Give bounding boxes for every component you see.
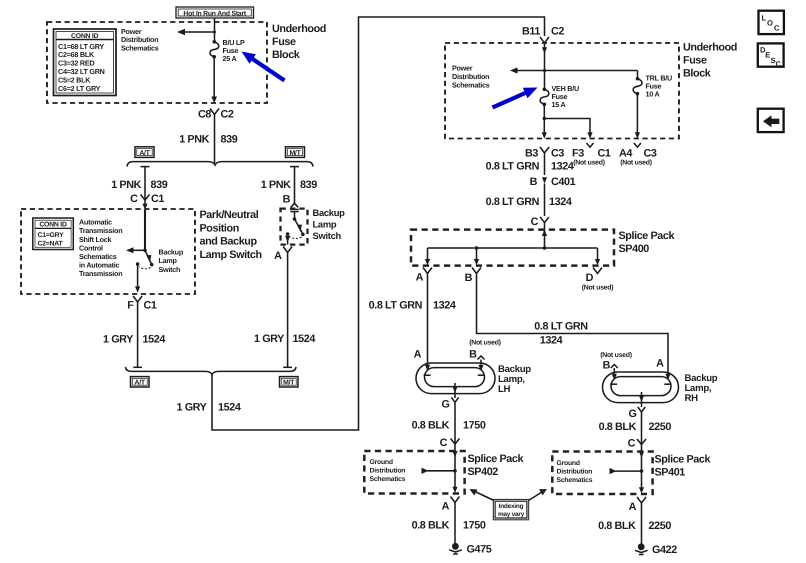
wire hot feed to fuse [214, 18, 216, 42]
svg-text:(Not used): (Not used) [573, 160, 605, 167]
splice pack SP400 (dashed) [411, 230, 614, 266]
svg-text:839: 839 [221, 134, 238, 146]
svg-text:G475: G475 [467, 544, 492, 556]
label Backup Lamp RH [685, 373, 718, 404]
svg-text:C2: C2 [221, 109, 234, 121]
svg-text:Splice Pack: Splice Pack [655, 454, 712, 466]
CONN ID table 2 [33, 218, 74, 250]
svg-text:Fuse: Fuse [272, 36, 296, 48]
svg-text:C6=2 LT GRY: C6=2 LT GRY [58, 84, 101, 93]
backup lamp RH (E2) [603, 372, 679, 407]
svg-text:1750: 1750 [463, 420, 486, 432]
svg-text:0.8 LT GRN: 0.8 LT GRN [486, 196, 540, 208]
wire B3 to C401 [544, 156, 546, 175]
note Ground Distribution Schematics (SP401) [557, 460, 593, 484]
svg-text:M/T: M/T [283, 380, 295, 387]
wire indexing arrow to SP401 [529, 489, 548, 501]
backup lamp LH (E1) [416, 363, 495, 398]
svg-text:1324: 1324 [551, 161, 574, 173]
svg-text:B: B [469, 349, 477, 361]
label Splice Pack SP401 [655, 454, 712, 479]
svg-text:CONN ID: CONN ID [71, 33, 99, 40]
wire to power distribution (left arrow) [177, 29, 215, 35]
svg-text:L: L [762, 14, 767, 23]
svg-text:2250: 2250 [649, 520, 672, 532]
svg-text:1 PNK: 1 PNK [179, 134, 209, 146]
node Hot In Run And Start [176, 7, 254, 18]
svg-text:Underhood: Underhood [272, 23, 326, 35]
svg-text:B: B [465, 272, 473, 284]
svg-text:0.8 BLK: 0.8 BLK [598, 520, 636, 532]
wire SP400 exit B [474, 248, 479, 265]
svg-text:(Not used): (Not used) [620, 160, 652, 167]
wire SP401 internal tap to ground distribution [610, 468, 644, 474]
label Backup Lamp Switch (M/T) [313, 207, 346, 241]
wire C2 to split [214, 118, 216, 164]
switch backup lamp (A/T) [135, 210, 154, 293]
svg-text:C2: C2 [551, 26, 564, 38]
wire arrow to shift lock note [126, 247, 145, 253]
svg-text:(Not used): (Not used) [600, 352, 632, 359]
wire F to bottom brace [133, 305, 142, 367]
node A connector (SP400) [416, 268, 432, 284]
svg-text:C8: C8 [198, 109, 211, 121]
svg-text:C1: C1 [144, 300, 157, 312]
svg-text:SP400: SP400 [619, 243, 650, 255]
svg-text:B3: B3 [525, 148, 538, 160]
svg-text:Distribution: Distribution [557, 469, 593, 476]
svg-text:O: O [767, 19, 773, 28]
svg-text:Distribution: Distribution [370, 468, 406, 475]
svg-text:Park/Neutral: Park/Neutral [200, 209, 259, 221]
node B connector (SP400) [465, 268, 481, 285]
label Splice Pack SP400 [619, 230, 676, 255]
svg-text:1524: 1524 [293, 333, 316, 345]
fuse VEH B/U 15A [540, 88, 549, 107]
svg-text:1324: 1324 [540, 335, 563, 347]
value label B/U LP Fuse 25 A [223, 38, 246, 63]
button DESC [758, 43, 784, 68]
wire feed to power distribution and TRL fuse [510, 67, 638, 73]
node junction feed [543, 69, 546, 72]
wire A to bottom brace [283, 255, 292, 367]
svg-text:may vary: may vary [498, 511, 525, 518]
svg-text:C1: C1 [151, 193, 164, 205]
wire SP401 exit [639, 471, 644, 493]
backup lamp switch box M/T (dashed) [281, 209, 308, 245]
svg-text:G422: G422 [652, 544, 677, 556]
node bottom option brace [126, 367, 297, 375]
svg-text:F: F [127, 300, 134, 312]
svg-text:1524: 1524 [218, 402, 241, 414]
svg-text:(Not used): (Not used) [582, 285, 614, 292]
underhood fuse block 1 (dashed) [47, 22, 267, 103]
svg-text:0.8 BLK: 0.8 BLK [599, 421, 637, 433]
svg-text:1750: 1750 [463, 520, 486, 532]
node G connector (LH) [442, 397, 459, 410]
svg-text:Backup: Backup [313, 207, 346, 218]
node A connector (SP401) [629, 497, 646, 513]
value label VEH B/U Fuse 15 A [552, 84, 579, 109]
svg-text:A: A [414, 349, 422, 361]
node C connector into SP400 [531, 216, 549, 248]
svg-text:Schematics: Schematics [557, 477, 593, 484]
svg-text:Lamp Switch: Lamp Switch [200, 249, 262, 261]
svg-text:0.8 BLK: 0.8 BLK [412, 420, 450, 432]
svg-text:C: C [774, 24, 780, 33]
note Power Distribution Schematics 2 [452, 64, 490, 90]
wire RH lamp ground to SP401 [639, 416, 644, 472]
svg-text:Block: Block [683, 68, 712, 80]
svg-text:1 GRY: 1 GRY [254, 333, 285, 345]
blue callout arrow to VEH B/U fuse [492, 88, 538, 110]
wire branch to F3 [544, 119, 592, 139]
svg-text:Switch: Switch [159, 265, 181, 274]
svg-text:SP401: SP401 [655, 467, 686, 479]
note Ground Distribution Schematics (SP402) [370, 459, 406, 483]
svg-text:1324: 1324 [549, 196, 572, 208]
svg-text:A: A [629, 501, 637, 513]
blue callout arrow to B/U LP fuse [242, 52, 286, 83]
svg-text:A: A [274, 250, 282, 262]
label M/T [286, 147, 305, 158]
svg-text:B: B [530, 176, 538, 188]
wire SP400 B to RH lamp [477, 277, 669, 376]
wire M/T branch drop [290, 167, 299, 204]
wire fuse to C8 [213, 57, 215, 98]
svg-text:Schematics: Schematics [370, 476, 406, 483]
svg-text:F3: F3 [572, 148, 584, 160]
svg-text:SP402: SP402 [468, 466, 499, 478]
label Underhood Fuse Block 2 [683, 42, 737, 80]
node F C1 connector [127, 296, 157, 312]
label A/T (bottom) [131, 377, 150, 387]
svg-text:A: A [656, 358, 664, 370]
node D connector (SP400, not used) [582, 268, 614, 292]
svg-text:LH: LH [498, 384, 511, 395]
svg-text:0.8 LT GRN: 0.8 LT GRN [369, 300, 423, 312]
svg-text:0.8 BLK: 0.8 BLK [412, 520, 450, 532]
fuse B/U LP 25A [210, 40, 219, 59]
wire SP402 exit [452, 471, 457, 493]
svg-text:15 A: 15 A [552, 100, 566, 109]
node B3 C3 connector [525, 147, 564, 160]
wire SP401 to G422 [641, 506, 643, 544]
splice pack SP401 (dashed) [552, 452, 652, 495]
park/neutral switch box (dashed) [21, 209, 195, 294]
splice pack SP402 (dashed) [364, 451, 464, 494]
wire B11 into block [542, 46, 547, 89]
label A/T [135, 147, 154, 158]
node A connector (SP402) [442, 497, 460, 513]
svg-text:D: D [586, 272, 594, 284]
svg-text:C: C [130, 193, 138, 205]
svg-text:Schematics: Schematics [452, 81, 490, 90]
wire SP400 A to LH lamp [427, 277, 429, 367]
svg-text:C: C [628, 438, 636, 450]
button back arrow [758, 109, 784, 132]
label Backup Lamp Switch (A/T) [159, 248, 184, 274]
note Automatic Transmission Shift Lock Control Schematics [79, 218, 122, 279]
svg-text:B: B [603, 360, 611, 372]
ground G422 [635, 543, 677, 556]
svg-text:(Not used): (Not used) [469, 340, 501, 347]
node top option brace A/T | M/T [127, 162, 313, 167]
label Underhood Fuse Block [272, 23, 326, 61]
svg-text:1524: 1524 [143, 334, 166, 346]
node B C401 connector [530, 176, 576, 216]
value label TRL B/U Fuse 10 A [646, 74, 673, 99]
svg-text:Block: Block [272, 49, 301, 61]
label Backup Lamp LH [498, 364, 531, 395]
svg-text:A4: A4 [619, 148, 632, 160]
svg-text:2250: 2250 [649, 421, 672, 433]
svg-text:Splice Pack: Splice Pack [468, 453, 525, 465]
wire indexing arrow to SP402 [470, 489, 495, 501]
node RH lamp pin A [656, 358, 671, 381]
svg-text:C401: C401 [551, 176, 576, 188]
wire SP400 exit D [595, 248, 600, 265]
svg-text:RH: RH [685, 393, 699, 404]
svg-text:1 PNK: 1 PNK [261, 179, 291, 191]
label M/T (bottom) [280, 377, 299, 387]
node B connector (M/T switch) [283, 194, 299, 212]
svg-text:0.8 LT GRN: 0.8 LT GRN [534, 321, 588, 333]
svg-text:Ground: Ground [557, 460, 580, 467]
node A4 C3 (not used) [619, 143, 657, 167]
node G connector (RH) [629, 407, 646, 420]
svg-text:M/T: M/T [289, 150, 301, 157]
node B11 C2 connector [522, 26, 564, 47]
svg-text:1 GRY: 1 GRY [103, 334, 134, 346]
node A connector (M/T switch) [274, 247, 292, 263]
svg-text:and Backup: and Backup [200, 236, 258, 248]
wire SP402 to G475 [454, 506, 456, 544]
svg-text:Transmission: Transmission [79, 269, 122, 278]
node C connector into SP401 [628, 438, 646, 450]
underhood fuse block 2 (dashed) [445, 43, 679, 139]
svg-text:A/T: A/T [135, 380, 146, 387]
svg-text:Fuse: Fuse [683, 55, 707, 67]
svg-text:10 A: 10 A [646, 90, 660, 99]
svg-text:0.8 LT GRN: 0.8 LT GRN [486, 161, 540, 173]
svg-text:Lamp: Lamp [313, 219, 337, 230]
fuse TRL B/U 10A [633, 71, 642, 139]
svg-text:Hot In Run And Start: Hot In Run And Start [183, 11, 247, 18]
CONN ID table [54, 29, 117, 96]
wire SP402 internal tap to ground distribution [422, 468, 457, 474]
node RH lamp pin B (not used) [600, 352, 632, 380]
svg-text:1 GRY: 1 GRY [176, 402, 207, 414]
svg-text:B: B [283, 194, 291, 206]
svg-text:839: 839 [300, 179, 317, 191]
label Park/Neutral Position and Backup Lamp Switch [200, 209, 262, 261]
svg-text:1324: 1324 [433, 300, 456, 312]
svg-text:Splice Pack: Splice Pack [619, 230, 676, 242]
label Indexing may vary [493, 499, 528, 519]
wire VEH fuse to B3 and junction [542, 104, 547, 138]
svg-text:G: G [442, 399, 450, 411]
wire SP400 exit A [425, 248, 430, 265]
node C connector into SP402 [440, 437, 460, 449]
svg-text:C1=GRY: C1=GRY [38, 232, 65, 239]
wire A/T branch drop [141, 167, 150, 210]
svg-text:C2=NAT: C2=NAT [38, 241, 64, 248]
svg-text:C1: C1 [598, 148, 611, 160]
svg-text:Position: Position [200, 222, 239, 234]
svg-text:1 PNK: 1 PNK [111, 179, 141, 191]
svg-text:CONN ID: CONN ID [39, 222, 67, 229]
svg-text:Switch: Switch [313, 230, 342, 241]
svg-text:Underhood: Underhood [683, 42, 737, 54]
node junction fuse top [213, 31, 216, 34]
svg-text:C: C [531, 216, 539, 228]
svg-text:C: C [440, 437, 448, 449]
svg-text:B11: B11 [522, 26, 540, 38]
node LH lamp pin B (not used) [469, 340, 501, 372]
svg-text:Ground: Ground [370, 459, 393, 466]
node C C1 connector [130, 193, 164, 205]
ground G475 [449, 543, 492, 556]
wire SP400 internal bus [428, 246, 598, 250]
label Splice Pack SP402 [468, 453, 525, 478]
wire merged output 1 GRY 1524 routing to fuse block 2 [212, 17, 545, 430]
svg-text:C3: C3 [551, 148, 564, 160]
svg-text:G: G [629, 408, 637, 420]
button LOC [759, 11, 784, 34]
switch backup lamp (M/T) [285, 212, 305, 245]
node F3 C1 (not used) [572, 143, 611, 167]
note Power Distribution Schematics [121, 27, 159, 53]
svg-text:A: A [416, 272, 424, 284]
svg-text:839: 839 [151, 179, 168, 191]
svg-text:Indexing: Indexing [499, 503, 524, 510]
svg-text:C3: C3 [644, 148, 657, 160]
svg-text:A: A [442, 501, 450, 513]
wire LH lamp ground to SP402 [452, 406, 457, 471]
svg-text:25 A: 25 A [223, 54, 237, 63]
node LH lamp pin A [414, 349, 431, 372]
svg-text:Schematics: Schematics [121, 44, 159, 53]
svg-text:C: C [776, 59, 782, 68]
node C8 C2 connector [198, 109, 234, 121]
svg-text:A/T: A/T [139, 150, 150, 157]
